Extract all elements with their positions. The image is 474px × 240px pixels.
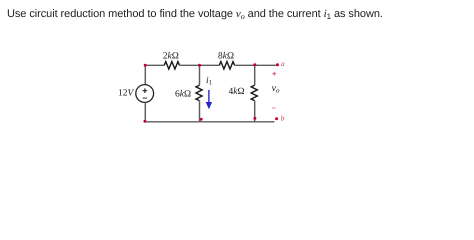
junction dot: top rail at 4k branch: [253, 63, 256, 66]
svg-text:12V: 12V: [118, 88, 135, 98]
svg-text:4kΩ: 4kΩ: [228, 87, 244, 97]
wire: 6k branch upper lead: [199, 65, 201, 85]
svg-text:8kΩ: 8kΩ: [218, 51, 234, 61]
junction dot: top-left corner: [144, 64, 147, 67]
wire: 6k branch lower lead: [199, 101, 201, 122]
junction dot: top rail at 6k branch: [198, 64, 201, 67]
node b terminal dot: [275, 117, 278, 120]
current arrow i1 (blue, downward): [208, 90, 210, 106]
resistor R 8k ohm (zigzag): [219, 62, 234, 69]
svg-text:b: b: [281, 113, 285, 122]
wire: 4k branch upper lead: [254, 65, 256, 85]
vo polarity minus (red): [272, 107, 276, 109]
svg-text:i1: i1: [206, 76, 212, 87]
voltage source plus sign: [143, 88, 148, 93]
voltage source minus sign: [143, 97, 147, 99]
wire: left rail lower (source - to bottom rail): [144, 102, 146, 122]
problem statement text: [7, 8, 383, 20]
resistor R 4k ohm (vertical zigzag): [251, 85, 257, 100]
voltage source V1 12V (circle): [136, 85, 154, 103]
resistor R 2k ohm (zigzag): [164, 62, 179, 69]
junction dot: bottom rail at 4k branch: [253, 117, 256, 120]
junction dot: bottom-left corner: [143, 120, 146, 123]
resistor R 6k ohm (vertical zigzag): [196, 85, 202, 100]
svg-text:vo: vo: [272, 83, 280, 95]
node a terminal dot: [276, 63, 279, 66]
wire: top rail, 8k to node a: [235, 64, 278, 66]
junction dot: bottom rail at 6k branch: [200, 118, 203, 121]
wire: bottom rail: [145, 121, 274, 123]
svg-text:2kΩ: 2kΩ: [163, 52, 179, 62]
svg-text:6kΩ: 6kΩ: [175, 90, 191, 100]
vo polarity plus (red): [273, 72, 277, 76]
wire: 4k branch lower lead: [254, 101, 256, 122]
wire: top rail, source to 2k resistor: [145, 64, 164, 66]
wire: left rail upper (source + to top rail): [144, 65, 146, 85]
svg-text:a: a: [281, 59, 285, 68]
wire: top rail, 2k to 8k: [180, 64, 220, 66]
